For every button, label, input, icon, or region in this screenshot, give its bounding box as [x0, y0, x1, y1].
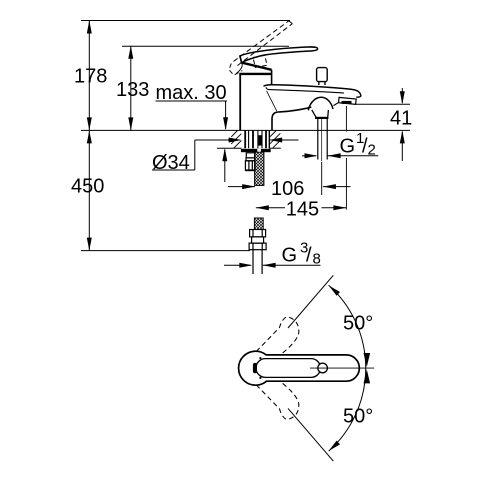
shower hose [318, 119, 327, 161]
body neck top [239, 73, 271, 75]
svg-text:50°: 50° [343, 406, 373, 428]
converging arrowheads at centreline [364, 353, 371, 367]
aerator [339, 97, 357, 104]
svg-text:G: G [340, 136, 356, 158]
dimension 178 [74, 21, 107, 131]
svg-text:G: G [282, 245, 298, 267]
supply stud and nut [245, 153, 255, 171]
spout crease line [266, 87, 344, 93]
hose outlet trapezoid [312, 110, 329, 118]
pivot button [318, 363, 328, 373]
lever front face [240, 56, 242, 63]
shower outlet dome [308, 97, 333, 110]
svg-text:8: 8 [313, 251, 321, 268]
lever chin edge [242, 63, 272, 70]
dimension G 3/8 [224, 240, 321, 268]
dimension 106 [228, 178, 351, 200]
svg-text:2: 2 [368, 142, 376, 159]
body right profile below spout [272, 107, 311, 130]
dimension max. 30 [156, 82, 229, 182]
wire: 133 extension line [122, 45, 289, 47]
dimension G 1/2 [302, 130, 378, 159]
spout top edge [264, 85, 361, 97]
junction dots [259, 357, 261, 359]
lever handle (side view) [240, 47, 318, 70]
dome to aerator link [334, 102, 339, 105]
svg-text:145: 145 [286, 199, 319, 221]
dimension Ø34 [152, 138, 299, 175]
svg-text:133: 133 [116, 79, 149, 101]
wire: hose-end extension line (450 bottom) [81, 250, 250, 252]
mounting shank through deck [245, 130, 269, 148]
dimension 145 [256, 199, 347, 221]
50 degree radius line upper [288, 275, 333, 328]
svg-text:178: 178 [74, 66, 107, 88]
arc arrowhead lower [329, 441, 340, 451]
wire: deck bottom line right [269, 147, 281, 149]
svg-text:106: 106 [271, 178, 304, 200]
deck cross-section hatching right [269, 131, 280, 148]
faucet body: mixer block [239, 70, 311, 130]
washer under deck [241, 149, 271, 152]
svg-text:/: / [306, 245, 312, 267]
dashed lever rotated up [256, 317, 299, 355]
dimension 133 [116, 46, 149, 131]
wire: deck bottom line left [217, 147, 242, 149]
lever top view outline [239, 351, 360, 385]
hidden cartridge rectangle (dashed) [253, 55, 267, 67]
wire: deck reference line [81, 129, 410, 131]
diverter knob [317, 68, 328, 85]
body neck left edge [239, 74, 241, 130]
arc arrowhead upper [329, 285, 340, 295]
body crease line [267, 91, 277, 111]
centre line [310, 367, 374, 369]
hose connector nut G3/8 [249, 230, 266, 250]
spout [264, 85, 361, 118]
logo mark on cap [253, 363, 257, 373]
deck cross-section hatching left [231, 131, 241, 149]
raised lever position (dashed) [234, 21, 293, 66]
svg-text:50°: 50° [343, 313, 373, 335]
wire: top extension line (lever max height) [81, 20, 290, 22]
hidden handle rear corner (dashed) [229, 64, 242, 76]
braided supply hose lower [254, 218, 263, 230]
wire: extension line aerator centre [345, 106, 347, 210]
smooth hose end [253, 250, 262, 274]
braided supply hose upper [255, 152, 264, 185]
dimension 450 [71, 130, 104, 250]
svg-text:450: 450 [71, 176, 104, 198]
spout tip bottom step [356, 96, 360, 99]
angle arc [329, 285, 366, 451]
svg-text:Ø34: Ø34 [152, 152, 190, 174]
dashed lever rotated down [256, 382, 299, 420]
svg-text:41: 41 [390, 108, 412, 130]
handle swing arc [236, 61, 242, 73]
body neck right edge [271, 70, 273, 85]
50 degree radius line lower [288, 408, 333, 461]
lever top surface inner contour [256, 359, 321, 378]
dimension 41 [390, 88, 412, 161]
wire: spout-outlet extension line [356, 103, 410, 105]
wire: extension line shower hose centre [321, 162, 323, 195]
